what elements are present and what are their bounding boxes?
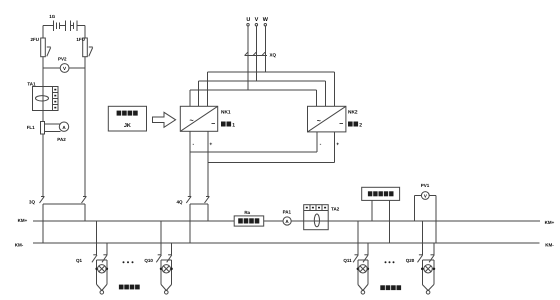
wire NK2 input 3 <box>334 72 336 106</box>
svg-text:Ra: Ra <box>244 210 250 215</box>
wire NK2 input 2 <box>324 81 326 106</box>
module NK2 name 模块2 <box>348 122 362 129</box>
switch 3Q <box>40 197 87 204</box>
voltmeter PV2 <box>60 64 69 73</box>
svg-text:PA2: PA2 <box>57 137 66 142</box>
svg-text:PV2: PV2 <box>58 57 67 62</box>
battery 1G cells <box>54 20 78 31</box>
wire NK2 input 1 <box>316 90 318 106</box>
fuse 1FU label <box>76 37 85 42</box>
monitoring unit JK box <box>108 106 146 131</box>
wire NK1 negative output <box>189 131 191 152</box>
wire NK2 negative output <box>316 132 318 152</box>
wire 3Q right pole to top bus <box>84 204 86 221</box>
voltmeter PV2 label <box>58 57 67 62</box>
svg-text:1: 1 <box>232 123 235 129</box>
ammeter PA2 <box>59 122 68 131</box>
wire phase V down to branch <box>255 55 257 81</box>
feeder Q10 <box>156 221 173 294</box>
ammeter PA1 <box>283 217 291 225</box>
shunt FL1 label <box>27 125 35 130</box>
svg-text:Q10: Q10 <box>144 258 153 263</box>
svg-text:NK2: NK2 <box>348 110 358 116</box>
switch 3Q label <box>29 200 36 205</box>
wire phase W drop <box>264 26 266 55</box>
terminal V circle <box>255 24 257 26</box>
terminal W label <box>263 17 269 23</box>
current transducer TA1 label <box>27 81 36 86</box>
svg-text:W: W <box>263 17 269 23</box>
dots between Q11 and Q20 <box>385 261 395 263</box>
label NK2 plus <box>336 142 339 148</box>
svg-text:Q20: Q20 <box>406 258 415 263</box>
svg-text:2FU: 2FU <box>30 37 39 42</box>
svg-text:~: ~ <box>317 118 321 125</box>
switch 4Q <box>186 197 209 204</box>
bus label KM+ right <box>545 220 555 225</box>
svg-text:FL1: FL1 <box>27 125 35 130</box>
arrow from JK to modules <box>153 112 176 127</box>
wire FL1 to PA2 <box>45 124 61 132</box>
module NK1 label <box>221 110 231 116</box>
fuse 2FU label <box>30 37 39 42</box>
wire phase V drop <box>255 26 257 55</box>
negative bus KM- <box>33 242 540 244</box>
wire phase U horizontal <box>190 89 317 91</box>
measuring instrument 综合测量仪 box <box>362 187 400 200</box>
svg-text:V: V <box>424 193 427 198</box>
wire phase U down to branch <box>247 55 249 90</box>
wire phase W horizontal <box>208 71 335 73</box>
bus label KM- right <box>545 243 554 248</box>
terminal U circle <box>247 24 249 26</box>
label NK1 plus <box>209 142 212 148</box>
wire PV2 bridge <box>43 67 85 69</box>
closing circuit text 合闸回路 <box>119 285 140 290</box>
wire instrument right leg <box>388 200 390 243</box>
wire negative tie bar <box>190 151 317 153</box>
label NK2 minus <box>320 142 322 148</box>
battery 1G label <box>49 14 56 19</box>
wire NK2 positive output <box>333 132 335 163</box>
terminal block XQ <box>245 52 268 55</box>
module NK1 name 模块1 <box>221 122 235 129</box>
wire negative down to 4Q <box>189 152 191 197</box>
feeder Q10 label <box>144 258 153 263</box>
svg-text:1G: 1G <box>49 14 56 19</box>
wire PV1 bridge <box>415 195 436 197</box>
wire phase W down to branch <box>264 55 266 72</box>
svg-text:3Q: 3Q <box>29 200 36 205</box>
svg-text:4Q: 4Q <box>176 200 183 205</box>
svg-text:~: ~ <box>189 118 193 125</box>
svg-text:JK: JK <box>124 123 131 129</box>
wire battery left branch down <box>42 57 44 197</box>
svg-text:+: + <box>209 142 212 148</box>
wire phase V horizontal <box>199 80 326 82</box>
svg-text:KM-: KM- <box>545 243 554 248</box>
wire positive tie bar <box>208 162 334 164</box>
current transducer TA1 <box>33 87 59 111</box>
feeder Q20 label <box>406 258 415 263</box>
svg-text:U: U <box>246 17 250 23</box>
wire NK1 input 3 <box>207 72 209 106</box>
svg-text:XQ: XQ <box>270 53 277 58</box>
ammeter PA2 label <box>57 137 66 142</box>
bus label KM+ left <box>18 218 28 223</box>
terminal block XQ label <box>270 53 277 58</box>
dots between Q1 and Q10 <box>123 261 134 263</box>
terminal W circle <box>264 24 266 26</box>
svg-text:Q11: Q11 <box>343 258 352 263</box>
voltmeter PV1 label <box>421 183 430 188</box>
switch blade at 2FU <box>47 47 51 56</box>
wire 4Q left pole to bottom bus <box>189 204 191 243</box>
module NK2 label <box>348 110 358 116</box>
rectifier module NK2 <box>308 106 346 132</box>
bus label KM- left <box>15 243 24 248</box>
feeder Q11 label <box>343 258 352 263</box>
svg-text:KM+: KM+ <box>545 220 555 225</box>
wire NK1 input 1 <box>189 90 191 106</box>
rectifier module NK1 <box>180 106 217 131</box>
current transducer TA2 label <box>331 207 340 212</box>
feeder Q20 <box>418 221 436 294</box>
wire NK1 input 2 <box>198 81 200 106</box>
wire PV1 right leg <box>435 196 437 244</box>
svg-text:PA1: PA1 <box>283 210 292 215</box>
feeder Q11 <box>353 221 369 294</box>
svg-text:PV1: PV1 <box>421 183 430 188</box>
svg-text:TA1: TA1 <box>27 81 36 86</box>
terminal V label <box>255 17 259 23</box>
label NK1 minus <box>192 142 194 148</box>
voltage dropper 降压装置 box <box>234 216 264 226</box>
svg-text:Q1: Q1 <box>76 258 83 263</box>
wire PV1 left leg <box>414 196 416 222</box>
positive bus KM+ <box>33 220 540 222</box>
switch blade at 1FU <box>89 47 93 56</box>
ammeter PA1 label <box>283 210 292 215</box>
switch 4Q label <box>176 200 183 205</box>
voltage dropper label Ra <box>244 210 250 215</box>
wire battery top loop <box>43 26 85 38</box>
current transducer TA2 <box>304 205 329 230</box>
shunt FL1 <box>41 122 45 135</box>
wire NK1 positive output <box>207 131 209 162</box>
wire phase U drop <box>247 26 249 55</box>
svg-text:KM+: KM+ <box>18 218 28 223</box>
terminal U label <box>246 17 250 23</box>
control circuit text 控制回路 <box>380 285 401 290</box>
fuse 2FU <box>41 38 46 57</box>
svg-text:TA2: TA2 <box>331 207 340 212</box>
wire positive down to 4Q <box>207 163 209 197</box>
fuse 1FU <box>83 38 88 57</box>
svg-text:V: V <box>255 17 259 23</box>
voltmeter PV1 <box>421 192 429 200</box>
wire instrument left leg <box>371 200 373 221</box>
wire 3Q left pole to bottom bus <box>42 204 44 243</box>
feeder Q1 label <box>76 258 83 263</box>
wire battery right branch down <box>84 57 86 197</box>
svg-text:KM-: KM- <box>15 243 24 248</box>
feeder Q1 <box>92 221 108 294</box>
svg-text:NK1: NK1 <box>221 110 231 116</box>
svg-text:2: 2 <box>359 123 362 129</box>
wire 4Q right pole to top bus <box>207 204 209 221</box>
svg-text:+: + <box>336 142 339 148</box>
